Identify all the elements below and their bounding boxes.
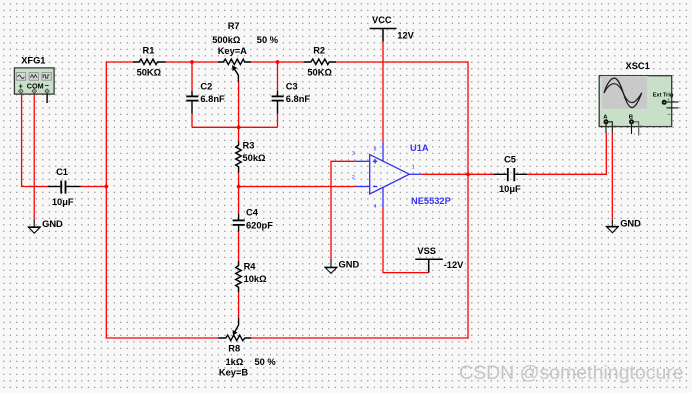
svg-text:10μF: 10μF — [499, 184, 521, 194]
wire C4-R4 branch — [238, 187, 240, 319]
wire non-inverting input to ground — [331, 161, 355, 258]
junction node wiper-bus — [237, 125, 241, 129]
svg-text:XSC1: XSC1 — [626, 61, 650, 71]
svg-text:10μF: 10μF — [52, 197, 74, 207]
svg-text:50KΩ: 50KΩ — [307, 68, 332, 78]
svg-text:NE5532P: NE5532P — [411, 196, 451, 206]
wire XFG1 plus to C1 — [22, 94, 48, 186]
svg-text:12V: 12V — [397, 30, 414, 40]
capacitor C1 — [48, 181, 81, 194]
svg-text:GND: GND — [339, 260, 360, 270]
VSS power symbol — [415, 259, 443, 272]
svg-text:C3: C3 — [286, 82, 298, 92]
svg-text:50kΩ: 50kΩ — [243, 153, 267, 163]
wire op-amp pin 4 to VSS — [383, 207, 429, 273]
ground at op-amp non-inverting input — [324, 259, 338, 274]
svg-text:50KΩ: 50KΩ — [137, 68, 162, 78]
capacitor C3 — [272, 91, 284, 114]
wire left bus — [105, 61, 107, 338]
svg-text:6.8nF: 6.8nF — [200, 94, 225, 104]
svg-text:+: + — [626, 124, 629, 129]
resistor R1 — [133, 59, 166, 65]
svg-text:GND: GND — [620, 219, 641, 229]
svg-text:C2: C2 — [200, 82, 212, 92]
wire scope A- to ground — [611, 134, 613, 220]
svg-text:R1: R1 — [143, 46, 155, 56]
svg-text:Key=A: Key=A — [218, 46, 247, 56]
wire R7 wiper to bus — [238, 81, 240, 127]
svg-text:VSS: VSS — [417, 246, 436, 256]
junction node output-feedback — [466, 172, 470, 176]
svg-text:CSDN @somethingtocure: CSDN @somethingtocure — [459, 362, 684, 384]
wire C1 to left bus — [81, 186, 107, 188]
capacitor C2 — [186, 91, 198, 114]
wire VCC to op-amp pin 8 — [382, 42, 384, 142]
svg-text:+: + — [600, 124, 603, 129]
resistor R3 — [236, 142, 242, 173]
wire top net from left bus through R1 R7 R2 to feedback corner — [106, 61, 468, 63]
potentiometer R8 — [218, 318, 251, 341]
svg-text:VCC: VCC — [372, 15, 392, 25]
svg-text:GND: GND — [42, 219, 63, 229]
wire bottom bus — [106, 337, 469, 339]
svg-text:R8: R8 — [228, 344, 240, 354]
svg-text:1kΩ: 1kΩ — [226, 357, 244, 367]
svg-text:-12V: -12V — [444, 260, 464, 270]
wire inverting input net — [239, 186, 355, 188]
junction node R7-C3-R2 — [276, 60, 280, 64]
ground under XFG1 — [28, 219, 42, 233]
svg-text:R3: R3 — [243, 140, 255, 150]
capacitor C4 — [233, 214, 245, 232]
svg-text:10kΩ: 10kΩ — [244, 274, 268, 284]
resistor R4 — [236, 261, 242, 292]
svg-text:2: 2 — [352, 175, 355, 181]
junction node R1-C2-R7 — [190, 60, 194, 64]
svg-text:4: 4 — [374, 204, 377, 210]
svg-text:50 %: 50 % — [257, 35, 279, 45]
op-amp U1A — [355, 141, 422, 207]
ground at scope — [606, 220, 620, 233]
svg-text:U1A: U1A — [410, 143, 429, 153]
svg-text:Key=B: Key=B — [219, 368, 248, 378]
svg-text:Ext Trig: Ext Trig — [653, 92, 674, 98]
svg-text:R4: R4 — [244, 262, 257, 272]
VCC power symbol — [370, 29, 397, 42]
svg-text:500kΩ: 500kΩ — [212, 35, 241, 45]
svg-text:620pF: 620pF — [246, 221, 273, 231]
svg-text:+: + — [667, 97, 670, 102]
svg-text:1: 1 — [412, 164, 415, 170]
wire XFG1 COM to ground — [33, 94, 35, 219]
svg-text:R7: R7 — [228, 21, 240, 31]
wire feedback vertical — [467, 61, 469, 338]
wire output net to C5 and scope — [422, 134, 607, 175]
wire C2 branch — [191, 62, 193, 127]
svg-text:C1: C1 — [56, 167, 68, 177]
junction node C1-left bus — [104, 185, 108, 189]
svg-text:C4: C4 — [246, 208, 259, 218]
svg-text:50 %: 50 % — [255, 357, 277, 367]
capacitor C5 — [493, 168, 527, 181]
svg-text:R2: R2 — [313, 46, 325, 56]
svg-text:3: 3 — [352, 151, 355, 157]
wire C2-C3 bottom bus — [192, 126, 278, 128]
XFG1 unused minus pin stub — [46, 94, 48, 103]
potentiometer R7 — [218, 59, 251, 81]
wire C3 branch — [277, 62, 279, 127]
svg-text:XFG1: XFG1 — [21, 56, 45, 66]
svg-text:8: 8 — [374, 147, 377, 153]
svg-text:C5: C5 — [504, 154, 516, 164]
junction node R3-C4-opamp — [237, 185, 241, 189]
resistor R2 — [304, 59, 337, 65]
wire R3 branch — [238, 127, 240, 186]
svg-text:6.8nF: 6.8nF — [286, 94, 311, 104]
